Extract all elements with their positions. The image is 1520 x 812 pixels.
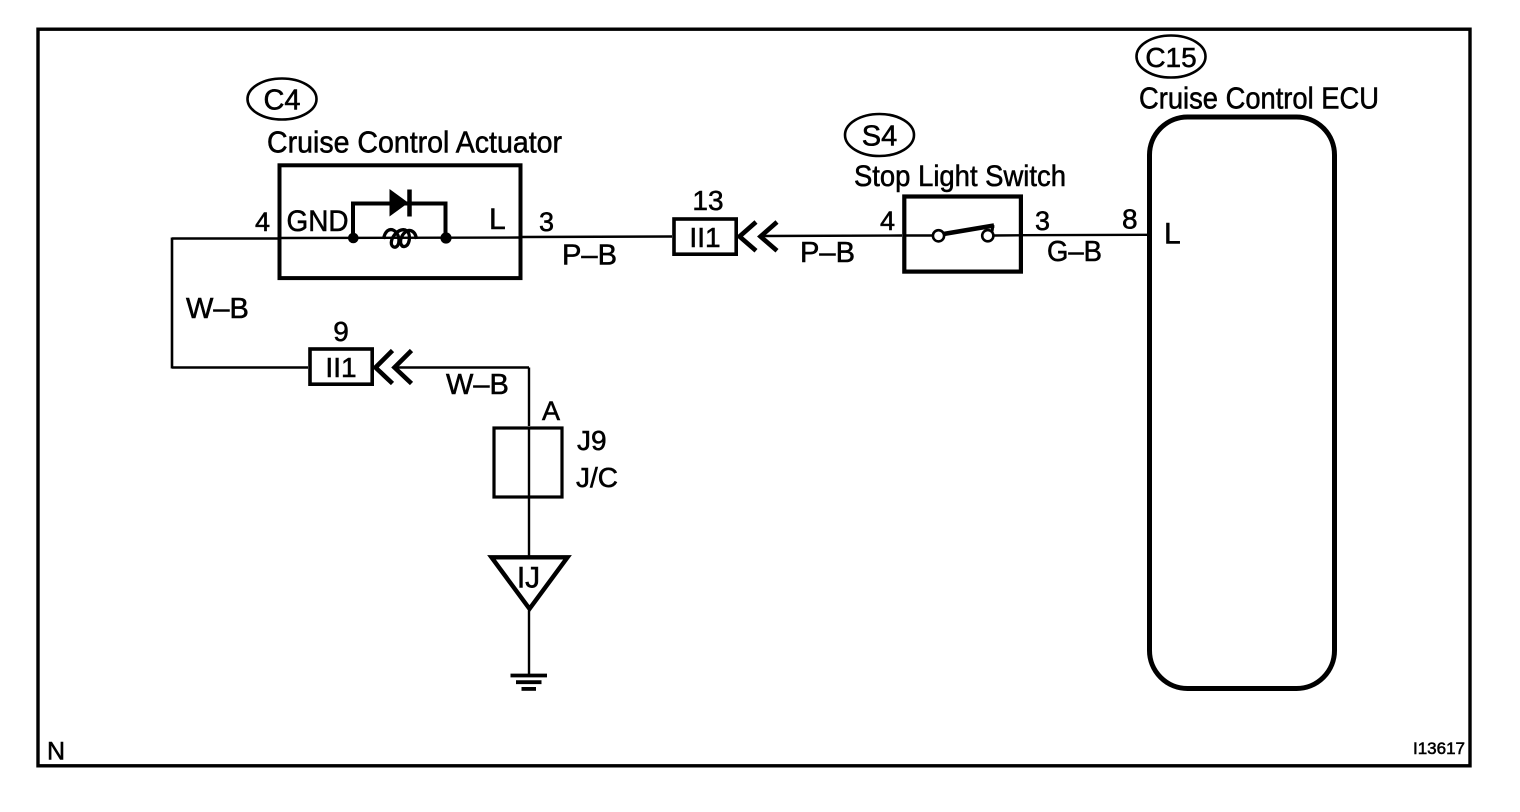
svg-text:J/C: J/C [576, 462, 618, 493]
wire: inside switch, right stub [994, 234, 1024, 237]
svg-text:L: L [1164, 218, 1181, 251]
svg-text:P–B: P–B [562, 240, 617, 272]
svg-text:13: 13 [692, 185, 723, 216]
component box: cruise control ECU C15 [1150, 117, 1335, 689]
svg-text:3: 3 [1035, 206, 1050, 236]
connector arrows (double chevron, lower) [376, 351, 412, 384]
node: junction dot left [348, 233, 359, 244]
connector II1 (pin 13) [674, 219, 736, 254]
switch contact right [982, 230, 993, 241]
svg-text:I13617: I13617 [1413, 739, 1465, 758]
svg-text:II1: II1 [689, 222, 720, 253]
svg-text:Cruise Control ECU: Cruise Control ECU [1139, 82, 1379, 116]
svg-text:C15: C15 [1145, 42, 1196, 73]
svg-text:G–B: G–B [1047, 236, 1102, 268]
svg-text:W–B: W–B [446, 369, 509, 401]
svg-text:P–B: P–B [800, 237, 855, 269]
node: junction dot right [440, 232, 451, 243]
svg-text:S4: S4 [862, 121, 897, 153]
wire: diode bypass loop [353, 204, 446, 239]
component box: stop light switch S4 [904, 197, 1021, 272]
wire: pin4 stub left of actuator [172, 237, 278, 239]
svg-text:Cruise Control Actuator: Cruise Control Actuator [267, 126, 562, 160]
wire: through actuator box [278, 236, 523, 239]
svg-text:J9: J9 [577, 425, 607, 456]
ground triangle IJ [492, 557, 568, 609]
svg-text:4: 4 [255, 207, 270, 237]
connector arrows (double chevron) [740, 222, 778, 251]
svg-text:W–B: W–B [186, 293, 249, 325]
inductor L1 (relay coil) [384, 230, 417, 248]
switch lever [944, 226, 995, 235]
svg-text:C4: C4 [263, 85, 300, 117]
wire: switch pin3 to ECU pin 8 [1023, 234, 1150, 237]
wire: actuator pin3 to connector II1 [523, 235, 673, 238]
connector II1 (pin 9) [310, 349, 372, 384]
svg-text:L: L [489, 203, 506, 236]
svg-text:GND: GND [287, 205, 349, 238]
svg-text:A: A [542, 396, 560, 426]
svg-text:IJ: IJ [517, 562, 540, 595]
svg-text:N: N [47, 738, 65, 766]
svg-text:4: 4 [880, 206, 895, 236]
wire: drop to junction block [528, 368, 530, 427]
connector oval C15 [1137, 36, 1206, 78]
wire: inside switch, left stub [903, 234, 933, 236]
wire: left drop from pin 4 [171, 238, 174, 369]
wire: arrows to stop light switch [761, 234, 902, 237]
svg-text:Stop Light Switch: Stop Light Switch [854, 160, 1066, 193]
junction block J9 J/C [494, 427, 562, 498]
svg-text:3: 3 [539, 207, 554, 237]
wire: junction block to IJ triangle [528, 498, 530, 558]
svg-text:II1: II1 [325, 352, 356, 383]
connector oval S4 [845, 114, 914, 156]
ground symbol [511, 676, 548, 689]
svg-text:9: 9 [333, 316, 349, 347]
wire: triangle to ground [528, 611, 530, 675]
wire: arrows to node A [395, 366, 529, 368]
svg-text:8: 8 [1122, 204, 1138, 235]
diode D1 (flyback) [390, 190, 410, 217]
component box: cruise control actuator U1 [280, 165, 521, 278]
wire: lower run to connector II1 pin 9 [172, 366, 308, 368]
connector oval C4 [248, 79, 317, 120]
switch contact left [933, 230, 944, 241]
